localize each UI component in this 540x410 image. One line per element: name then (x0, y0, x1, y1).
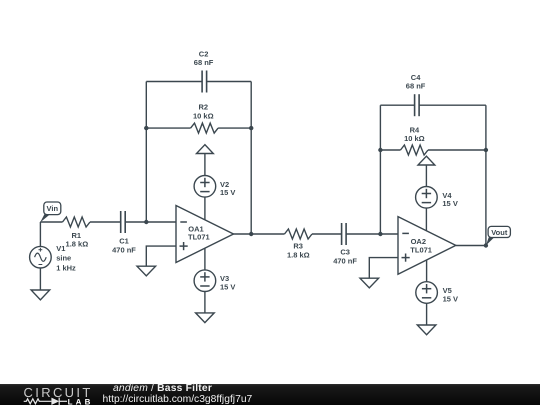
svg-text:Vout: Vout (491, 228, 508, 237)
wire OA2 noninverting input (369, 258, 398, 279)
op-amp OA2 (398, 217, 456, 275)
wire OA1 bottom to V3 (204, 248, 206, 270)
svg-text:15 V: 15 V (442, 199, 457, 208)
wire feedback left vertical (stage 2) (379, 105, 381, 234)
node junction feedback right at R4 (484, 148, 488, 152)
voltage source V1 (30, 246, 52, 268)
capacitor C1 (121, 211, 126, 233)
CircuitLab logo (0, 384, 100, 406)
ground (below V3) (196, 313, 215, 323)
ground (OA1 + input) (137, 266, 156, 276)
svg-text:15 V: 15 V (220, 283, 235, 292)
wire OA1 noninverting input (146, 246, 176, 266)
wire V5 to ground (426, 303, 428, 325)
svg-text:C3: C3 (340, 247, 350, 256)
resistor R3 (285, 229, 313, 239)
svg-text:1.8 kΩ: 1.8 kΩ (66, 239, 89, 248)
node flag Vout (486, 226, 511, 245)
wire R3 to C3 (312, 233, 342, 235)
wire R4 right lead (428, 149, 486, 151)
node junction feedback left at R2 (144, 126, 148, 130)
svg-text:TL071: TL071 (410, 246, 432, 255)
svg-text:sine: sine (56, 254, 71, 263)
wire C3 to OA2 inverting input (346, 233, 398, 235)
svg-text:1.8 kΩ: 1.8 kΩ (287, 251, 310, 260)
wire feedback right vertical (stage 2) (485, 105, 487, 245)
svg-text:10 kΩ: 10 kΩ (193, 111, 214, 120)
wire arrow to V4 (425, 165, 427, 187)
node junction OA1 output/feedback (249, 232, 253, 236)
power flag arrow (V2 supply) (197, 145, 214, 154)
svg-text:R2: R2 (199, 102, 209, 111)
wire feedback left vertical (stage 1) (145, 82, 147, 223)
ground (OA2 + input) (360, 278, 379, 288)
svg-text:470 nF: 470 nF (333, 257, 357, 266)
node junction at C1/feedback (144, 220, 148, 224)
wire C2 to right vertical (207, 81, 252, 83)
wire V3 to ground (204, 292, 206, 313)
voltage source V3 (194, 270, 216, 292)
power flag arrow (V4 supply) (418, 156, 435, 165)
node junction Vout (484, 243, 488, 247)
svg-text:15 V: 15 V (443, 294, 458, 303)
wire OA2 bottom to V5 (426, 260, 428, 282)
capacitor C3 (342, 223, 347, 245)
wire V2 to OA1 top (204, 197, 206, 220)
svg-text:TL071: TL071 (188, 232, 210, 241)
wire R4 left lead (380, 149, 400, 151)
node junction feedback left at R4 (378, 148, 382, 152)
node flag Vin (40, 202, 61, 222)
wire Vin node to R1 (40, 221, 62, 223)
voltage source V2 (194, 176, 216, 198)
wire feedback right vertical (stage 1) (250, 82, 252, 235)
footer title line (113, 384, 212, 395)
capacitor C2 (202, 71, 207, 93)
wire C1 to OA1 inverting input (125, 221, 176, 223)
svg-text:V1: V1 (56, 244, 65, 253)
op-amp OA1 (176, 206, 234, 263)
svg-text:LAB: LAB (68, 397, 94, 406)
ground (below V1) (31, 290, 50, 300)
voltage source V5 (416, 282, 438, 304)
node junction feedback right at R2 (249, 126, 253, 130)
wire OA1 output to R3 (234, 233, 285, 235)
wire V4 to OA2 top (425, 208, 427, 231)
voltage source V4 (416, 187, 438, 209)
svg-text:68 nF: 68 nF (194, 58, 214, 67)
wire R2 left lead (146, 127, 190, 129)
wire arrow to V2 (204, 154, 206, 176)
wire R2 right lead (218, 127, 251, 129)
svg-text:R3: R3 (293, 241, 303, 250)
resistor R1 (63, 217, 91, 227)
wire OA2 output to Vout (456, 245, 486, 247)
ground (below V5) (417, 325, 436, 335)
svg-text:C1: C1 (119, 236, 129, 245)
svg-text:R4: R4 (410, 125, 420, 134)
wire C4 to right vertical (419, 104, 486, 106)
footer url line (103, 395, 253, 406)
wire R1 to C1 (90, 221, 121, 223)
resistor R2 (191, 123, 219, 133)
svg-text:OA2: OA2 (411, 237, 426, 246)
footer watermark bar (0, 384, 540, 406)
wire Vin node down to V1 (39, 222, 41, 247)
capacitor C4 (415, 94, 420, 116)
wire top feedback to C4 (380, 104, 414, 106)
svg-text:470 nF: 470 nF (112, 246, 136, 255)
svg-text:Vin: Vin (47, 204, 59, 213)
svg-text:68 nF: 68 nF (406, 82, 426, 91)
node junction at OA2 input/feedback (378, 232, 382, 236)
wire V1 to ground (39, 268, 41, 290)
svg-text:15 V: 15 V (220, 188, 235, 197)
svg-text:1 kHz: 1 kHz (56, 264, 76, 273)
svg-text:10 kΩ: 10 kΩ (404, 134, 425, 143)
resistor R4 (401, 145, 429, 155)
wire top feedback to C2 (146, 81, 202, 83)
